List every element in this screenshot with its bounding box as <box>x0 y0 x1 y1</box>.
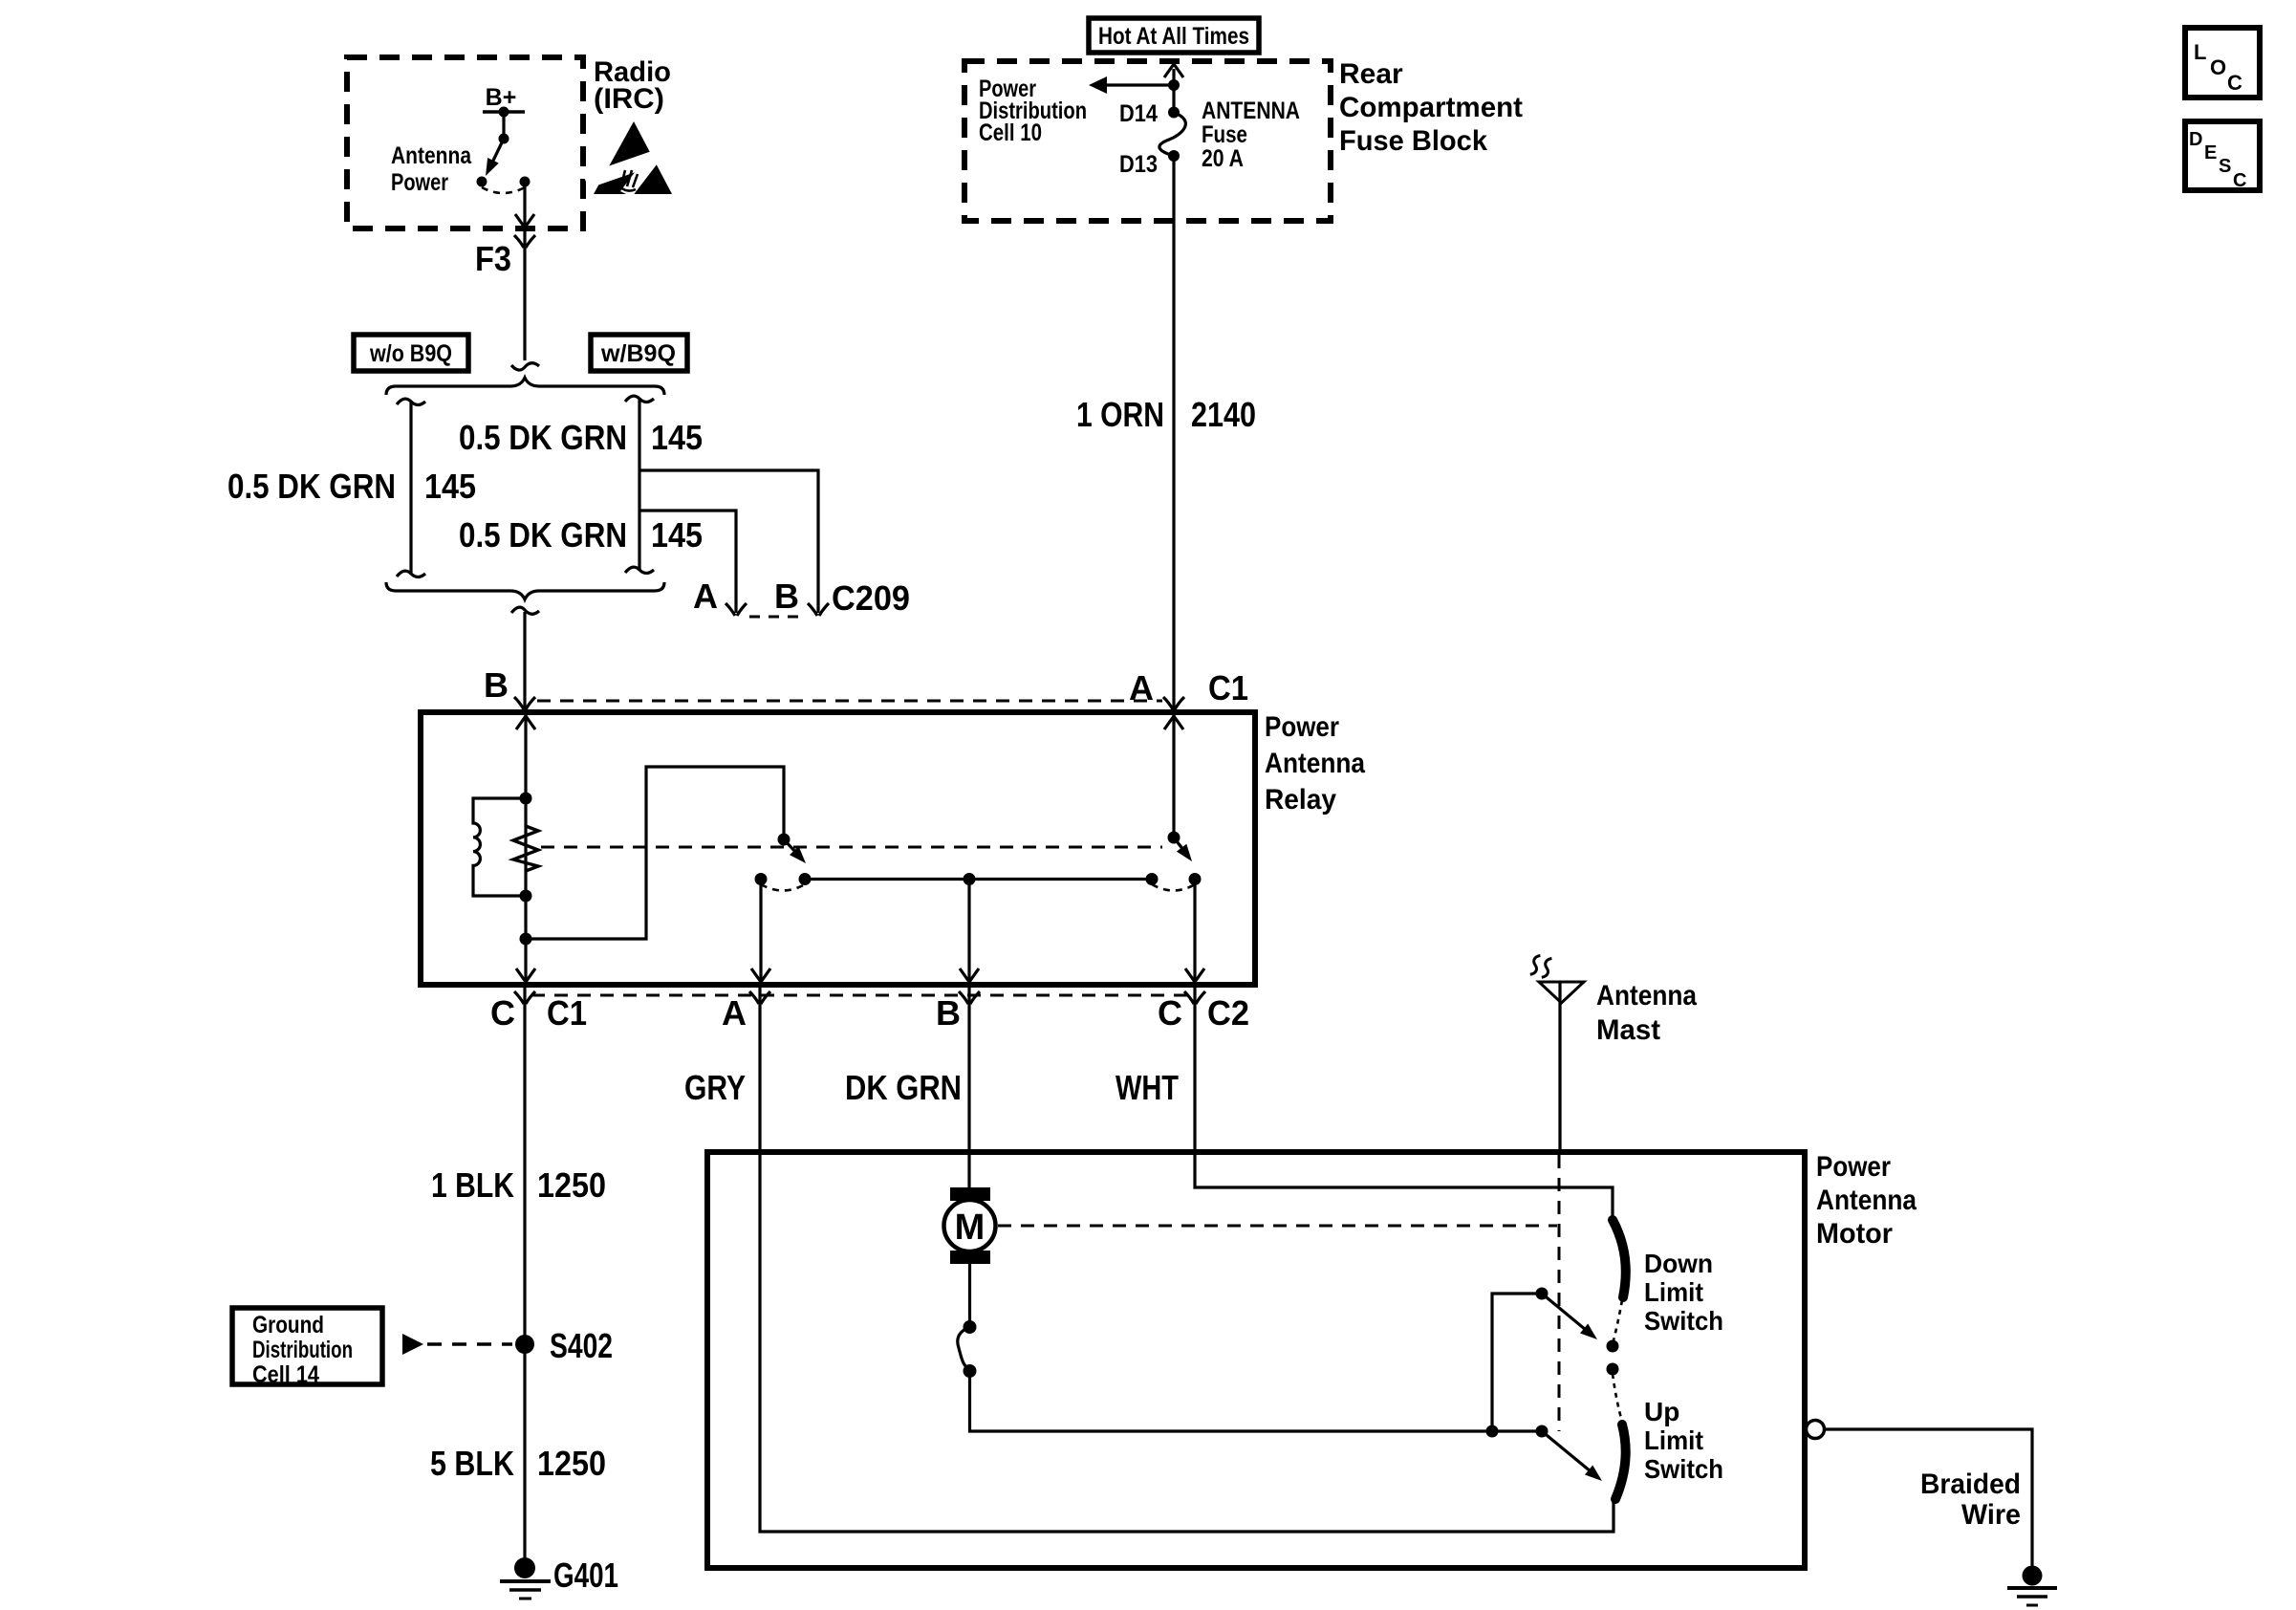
wire label 0.5 DK GRN 145 (top, w/B9Q) <box>459 418 703 457</box>
svg-text:L: L <box>2194 40 2206 64</box>
rear compartment fuse block dashed box <box>964 61 1331 221</box>
relay resistor <box>513 826 538 871</box>
svg-text:145: 145 <box>651 515 703 555</box>
svg-text:Compartment: Compartment <box>1339 92 1523 123</box>
wire label 1 BLK 1250 <box>431 1165 606 1205</box>
svg-text:Braided: Braided <box>1920 1469 2021 1500</box>
relay pin C2 wire <box>1185 880 1204 983</box>
svg-text:145: 145 <box>424 467 476 506</box>
wire BLK relay to ground <box>523 985 526 1568</box>
svg-text:C1: C1 <box>547 993 587 1033</box>
motor breaker <box>958 1264 1542 1431</box>
svg-text:C: C <box>2227 71 2242 95</box>
connector C209 pin B <box>774 577 829 616</box>
wire to C209 pin B <box>639 470 818 613</box>
relay common wire <box>805 873 1152 885</box>
connector pin B at relay <box>484 665 535 709</box>
svg-text:Mast: Mast <box>1596 1014 1660 1046</box>
splice S402 <box>515 1326 613 1365</box>
connector pin B C2 <box>936 991 980 1033</box>
label ANTENNA Fuse 20 A <box>1202 98 1300 172</box>
relay armature dashed link <box>541 846 1162 849</box>
relay coil feed wire B to C <box>516 715 535 982</box>
svg-text:D: D <box>2189 129 2202 150</box>
label Power Antenna Relay <box>1265 711 1365 816</box>
braided wire <box>1825 1429 2032 1566</box>
label Down Limit Switch <box>1644 1249 1723 1336</box>
ESD symbol <box>583 121 677 197</box>
svg-text:C2: C2 <box>1207 993 1249 1033</box>
DESC box <box>2185 121 2260 191</box>
svg-text:Limit: Limit <box>1644 1425 1703 1455</box>
svg-text:20 A: 20 A <box>1202 145 1244 172</box>
motor mechanical dashed link <box>998 1225 1557 1228</box>
label Power Antenna Motor <box>1816 1151 1917 1250</box>
svg-text:ANTENNA: ANTENNA <box>1202 98 1300 124</box>
relay pin A wire <box>751 880 770 983</box>
wire GRY into motor <box>760 985 1614 1532</box>
svg-text:5 BLK: 5 BLK <box>430 1444 514 1483</box>
label box Ground Distribution Cell 14 <box>232 1308 382 1388</box>
svg-text:B+: B+ <box>486 84 517 111</box>
arrow to power distribution <box>1089 76 1174 94</box>
svg-text:GRY: GRY <box>684 1068 746 1107</box>
svg-text:0.5 DK GRN: 0.5 DK GRN <box>227 467 396 506</box>
svg-text:Fuse: Fuse <box>1202 121 1247 148</box>
label B+ <box>486 84 517 111</box>
connector F3 <box>475 235 535 278</box>
wire ORN fuse to relay <box>1172 156 1175 712</box>
svg-text:WHT: WHT <box>1116 1068 1179 1107</box>
mast mechanical dashed link <box>1558 1155 1561 1431</box>
svg-text:O: O <box>2210 55 2226 79</box>
svg-text:Power: Power <box>1265 711 1339 743</box>
up limit switch <box>1486 1374 1626 1499</box>
connector C209 dashed link <box>749 616 805 619</box>
wire label 1 ORN 2140 <box>1076 395 1256 434</box>
label D14 <box>1119 100 1158 127</box>
svg-text:Up: Up <box>1644 1397 1679 1426</box>
svg-text:Switch: Switch <box>1644 1306 1723 1336</box>
svg-text:0.5 DK GRN: 0.5 DK GRN <box>459 515 627 555</box>
svg-text:Antenna: Antenna <box>1265 748 1365 779</box>
svg-text:C1: C1 <box>1208 668 1248 707</box>
dashed arrow from ground distribution <box>402 1334 512 1355</box>
svg-text:G401: G401 <box>553 1556 618 1595</box>
label box Hot At All Times <box>1089 18 1259 53</box>
label D13 <box>1119 151 1158 178</box>
svg-text:D14: D14 <box>1119 100 1158 127</box>
relay switch 2 (C2 side) <box>1146 715 1202 891</box>
option box w/B9Q <box>591 335 687 371</box>
label Antenna Mast <box>1596 980 1697 1046</box>
wire WHT to down limit switch <box>1195 985 1613 1220</box>
connector C209 pin A <box>693 577 747 616</box>
motor M <box>944 1187 996 1264</box>
svg-text:D13: D13 <box>1119 151 1158 178</box>
wire label GRY <box>684 1068 746 1107</box>
svg-text:w/o B9Q: w/o B9Q <box>369 340 452 367</box>
right option bracket <box>625 396 654 573</box>
svg-text:2140: 2140 <box>1191 395 1256 434</box>
wire to C209 pin A <box>639 511 736 613</box>
relay pin B wire <box>960 880 979 983</box>
svg-text:S: S <box>2219 156 2231 177</box>
braided wire terminal circle <box>1807 1421 1825 1439</box>
svg-text:S402: S402 <box>550 1326 613 1365</box>
svg-text:Rear: Rear <box>1339 58 1403 90</box>
svg-text:1250: 1250 <box>537 1444 606 1483</box>
svg-text:F3: F3 <box>475 239 511 278</box>
fuse ANTENNA 20A <box>1159 107 1185 163</box>
svg-text:E: E <box>2204 142 2217 163</box>
svg-text:Hot At All Times: Hot At All Times <box>1098 23 1249 50</box>
option box w/o B9Q <box>354 335 468 371</box>
wire label 0.5 DK GRN 145 (bottom, w/B9Q) <box>459 515 703 555</box>
label Braided Wire <box>1920 1469 2021 1531</box>
svg-text:C: C <box>490 993 515 1033</box>
svg-text:Motor: Motor <box>1816 1218 1893 1250</box>
svg-text:Distribution: Distribution <box>252 1337 353 1363</box>
svg-text:B: B <box>774 577 799 616</box>
svg-text:DK GRN: DK GRN <box>845 1068 962 1107</box>
antenna mast symbol <box>1539 982 1584 1152</box>
wire label DK GRN <box>845 1068 962 1107</box>
svg-text:A: A <box>722 993 747 1033</box>
label Antenna Power <box>391 142 472 196</box>
svg-text:Power: Power <box>1816 1151 1891 1183</box>
label Radio (IRC) <box>594 56 671 115</box>
wire DK GRN to motor <box>967 985 970 1189</box>
svg-text:Wire: Wire <box>1961 1499 2021 1531</box>
svg-text:1250: 1250 <box>537 1165 606 1205</box>
wire label 0.5 DK GRN 145 (left, w/o B9Q) <box>227 467 476 506</box>
svg-text:Antenna: Antenna <box>1816 1185 1917 1216</box>
svg-text:1 ORN: 1 ORN <box>1076 395 1164 434</box>
svg-text:C: C <box>1158 993 1182 1033</box>
svg-text:C: C <box>2233 170 2246 191</box>
connector pin A at relay <box>1129 668 1248 709</box>
wire label 5 BLK 1250 <box>430 1444 606 1483</box>
ground at braided wire <box>2007 1566 2057 1606</box>
brace top <box>386 378 664 395</box>
svg-text:Down: Down <box>1644 1249 1713 1278</box>
svg-text:Switch: Switch <box>1644 1454 1723 1484</box>
svg-text:Antenna: Antenna <box>391 142 472 169</box>
left option bracket <box>397 399 425 577</box>
ground G401 <box>500 1556 618 1599</box>
label Up Limit Switch <box>1644 1397 1723 1484</box>
label C209 <box>832 578 910 618</box>
down limit switch <box>1492 1220 1626 1431</box>
connector row dashed line <box>537 700 1162 703</box>
svg-text:M: M <box>955 1207 986 1248</box>
svg-text:B: B <box>936 993 961 1033</box>
inline connector hook bottom <box>511 607 539 614</box>
wire feed with up arrow <box>1164 64 1183 112</box>
brace bottom <box>386 582 664 599</box>
connector pin C C2 <box>1158 991 1249 1033</box>
svg-text:Cell 14: Cell 14 <box>252 1361 319 1388</box>
relay switch 1 (up contact side) <box>755 834 812 891</box>
relay coil (inductor) <box>473 798 526 896</box>
label Power Distribution Cell 10 <box>979 76 1087 146</box>
svg-text:Limit: Limit <box>1644 1277 1703 1307</box>
svg-text:Fuse Block: Fuse Block <box>1339 125 1487 157</box>
radio module dashed box <box>347 57 583 228</box>
wire splice to relay pin B <box>523 612 526 712</box>
LOC box <box>2185 28 2260 98</box>
connector pin A C2 <box>722 991 770 1033</box>
svg-text:Relay: Relay <box>1265 784 1336 816</box>
svg-text:Ground: Ground <box>252 1312 324 1338</box>
wire radio output with arrow <box>515 182 534 360</box>
relay internal wire to switch pivot <box>526 767 784 939</box>
relay box <box>421 712 1255 985</box>
svg-text:145: 145 <box>651 418 703 457</box>
svg-text:0.5 DK GRN: 0.5 DK GRN <box>459 418 627 457</box>
svg-text:A: A <box>693 577 718 616</box>
connector pin C C1 <box>490 991 587 1033</box>
label Rear Compartment Fuse Block <box>1339 58 1523 157</box>
motor box <box>707 1152 1805 1568</box>
svg-text:(IRC): (IRC) <box>594 83 664 115</box>
radio antenna power switch <box>477 107 531 194</box>
svg-text:Power: Power <box>391 169 448 196</box>
svg-text:C209: C209 <box>832 578 910 618</box>
wire label WHT <box>1116 1068 1179 1107</box>
svg-text:1 BLK: 1 BLK <box>431 1165 514 1205</box>
svg-text:Antenna: Antenna <box>1596 980 1697 1012</box>
svg-text:A: A <box>1129 668 1154 707</box>
svg-text:w/B9Q: w/B9Q <box>600 340 676 367</box>
connector row dashed line <box>531 994 1189 997</box>
radio waves <box>1529 954 1552 979</box>
svg-text:B: B <box>484 665 509 705</box>
inline connector hook top <box>511 363 539 370</box>
svg-text:Cell 10: Cell 10 <box>979 120 1042 146</box>
